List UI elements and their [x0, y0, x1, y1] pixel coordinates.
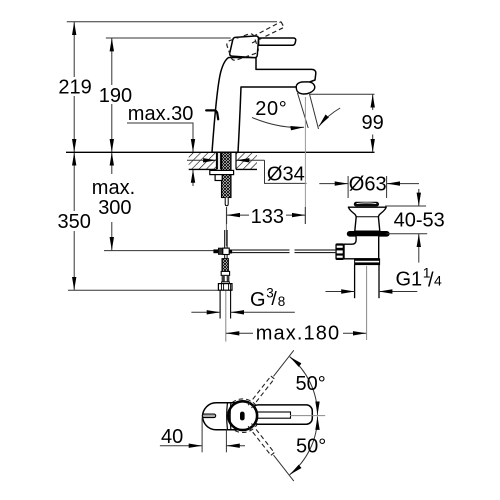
svg-text:G1: G1 [396, 269, 423, 291]
svg-text:50°: 50° [296, 436, 326, 458]
pull rod extension line [225, 208, 227, 247]
lever centerline [290, 415, 325, 417]
body top view (stadium) [203, 403, 241, 430]
133 vertical extension line from tip [304, 97, 306, 224]
svg-text:20°: 20° [255, 98, 287, 120]
slot in cartridge [240, 412, 245, 421]
handle base side view [230, 36, 259, 58]
lever top view [252, 405, 312, 424]
hose centerline [225, 291, 227, 342]
counter hatched section left [189, 152, 217, 169]
svg-text:99: 99 [362, 112, 384, 134]
pivot junction block [213, 248, 232, 259]
spray angle 20 deg stream lines [298, 93, 319, 129]
dimension max.300 [92, 152, 135, 250]
drain O-ring [347, 231, 390, 237]
dimension G1 1/4 [326, 264, 443, 291]
dimension max.30 counter thickness [127, 103, 193, 186]
svg-text:max.180: max.180 [256, 323, 340, 345]
hose nipple under flange [215, 175, 222, 181]
tail collar [221, 271, 229, 275]
extension line spout top [106, 37, 231, 39]
svg-text:max.: max. [92, 177, 135, 199]
tail dark section [222, 275, 230, 283]
drain pop-up plug [354, 202, 379, 207]
svg-text:4: 4 [434, 273, 442, 289]
dimension 99 [310, 94, 384, 152]
dashed rotated base circle [226, 399, 260, 433]
pull rod lower tip [225, 198, 228, 206]
svg-text:40: 40 [161, 426, 183, 448]
pin (pop-up rod end) [202, 414, 215, 418]
svg-text:max.30: max.30 [128, 103, 194, 125]
lower 50 deg extension line [274, 455, 294, 481]
dashed handle base (raised position) [226, 33, 260, 62]
svg-text:G: G [250, 289, 266, 311]
svg-text:/: / [271, 288, 277, 310]
pop-up rod vertical stub [225, 230, 227, 248]
mounting flange nut [210, 170, 234, 174]
counter hatched section right [236, 152, 257, 169]
faucet body side view [212, 58, 316, 153]
dimension G3/8 [191, 286, 294, 313]
dashed lever upper position [248, 376, 274, 408]
dimension 40-53 [385, 189, 445, 263]
dimension 350 [58, 152, 91, 290]
dimension Ø34 with leader [187, 160, 307, 185]
faucet shank tube below base [218, 152, 221, 169]
horizontal pop-up rod [232, 250, 335, 253]
lift rod knob at back of faucet [206, 110, 218, 119]
upper 50 deg extension line [274, 350, 294, 376]
dashed lever lower position [248, 424, 274, 456]
handle lever side view [259, 38, 296, 45]
svg-text:133: 133 [251, 206, 284, 228]
svg-text:219: 219 [58, 77, 91, 99]
drain coupling ring [355, 259, 380, 265]
lower 50 deg arc [290, 417, 327, 475]
svg-text:40-53: 40-53 [394, 210, 445, 232]
counter top line [66, 151, 375, 153]
dimension 219 [58, 22, 91, 153]
knurled knob on drain port [335, 243, 344, 260]
dimension max.180 [226, 323, 367, 345]
svg-text:Ø63: Ø63 [349, 173, 387, 195]
svg-text:8: 8 [278, 294, 286, 309]
drain flange [348, 207, 386, 231]
threaded shank through counter [222, 152, 232, 197]
drain tailpipe [355, 265, 379, 299]
svg-text:300: 300 [98, 197, 131, 219]
dimension Ø63 [319, 173, 419, 198]
dimension 190 [99, 38, 132, 152]
svg-text:350: 350 [58, 211, 91, 233]
upper 50 deg arc [290, 357, 326, 415]
350 bottom reference line [68, 289, 219, 291]
cartridge circle [228, 401, 257, 430]
svg-text:Ø34: Ø34 [267, 164, 305, 186]
dimension 133 [227, 206, 306, 228]
extension line top (handle max height) [67, 21, 277, 23]
svg-text:50°: 50° [296, 373, 326, 395]
drain centerline [366, 266, 368, 340]
supply connection nut G3/8 [218, 284, 232, 291]
dimension 40 [160, 418, 245, 453]
faucet tail threaded section [222, 259, 228, 272]
max.300 horizontal reference to rod [104, 250, 214, 252]
aerator tip [296, 82, 315, 94]
dashed lever (raised position) [252, 22, 284, 43]
seam arcs [227, 403, 231, 430]
drain body lower [344, 236, 379, 259]
supply hose [220, 290, 231, 318]
label 20 degrees with arcs [252, 98, 340, 128]
